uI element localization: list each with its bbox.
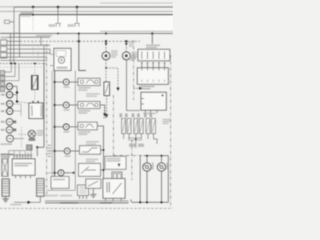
air temp sensor box [78,102,100,109]
check connector box [51,177,69,189]
node r2 [146,201,148,203]
relay bottom pins [145,110,157,113]
node J3 [76,6,79,9]
wire drop from J3 [76,7,78,23]
node on harness edge [78,32,80,34]
knock sensor S2 [157,156,165,203]
connector T2 [74,23,80,27]
dashed drop below resistor [106,96,108,114]
terminal mark t6 [13,129,16,132]
node J2 [57,6,60,9]
wire circle3 stub [13,104,21,116]
igniter top pins [14,156,31,158]
left connector block [0,71,4,92]
label under relay [143,113,156,114]
wire under check connector [47,189,75,191]
injector no2 [127,119,131,134]
enclosure border dash-dot [46,44,48,196]
heavy gray bus bar lower [45,202,129,204]
ignition coil A hatched [2,179,9,196]
label harness [21,12,34,14]
wire right of ISC [79,33,86,70]
connector circle 4 [7,108,13,114]
coil box narrow [2,159,8,177]
wire drop to header [151,32,153,34]
wire dashed faint second [0,66,44,68]
main harness box top edge [20,14,174,16]
node J1 [32,6,35,9]
wire circle1 to junction [13,86,17,101]
connector tick rows [142,62,165,65]
wire top feed light left [0,6,14,8]
wire second feed [0,10,173,12]
wire ladder L6 [0,56,47,58]
node on harness bottom [105,32,107,34]
label ISC [57,67,68,69]
sensor rail [144,155,169,157]
relay top pins [32,101,39,103]
harness box interior [20,15,173,32]
ECU bus wire main [54,71,56,177]
label text left margin [1,143,13,145]
node r3 [160,201,162,203]
dash-dot border upper right [133,40,135,100]
main harness box bottom edge [0,32,173,34]
arrow end of branch [116,88,119,92]
node bus b2 [14,63,16,65]
wire drop from J1 [32,7,34,15]
label near border [130,55,137,56]
dash-dot border far right [170,55,172,207]
label left of border [129,42,134,43]
wire ladder L1 [7,36,50,38]
label bottom left [11,204,22,206]
wire inner gray rail [100,30,173,32]
wire dashed rail [20,40,140,42]
wire code labels column [48,145,51,146]
ignition coil B hatched [37,179,44,197]
relay label box [105,156,126,169]
ECU bus companion wire [51,71,53,191]
wire ladder L7 [0,59,47,61]
connector T1 [55,23,61,27]
connector circle 5 [6,119,13,126]
igniter main box [103,179,125,199]
connector circle 2 [6,92,12,98]
wire sensor3 right [97,126,103,179]
ISC left stubs [50,54,54,65]
label above ladder [36,35,52,37]
label under wire [44,195,58,197]
heavy gray bus bar upper [45,200,129,202]
label valve text [86,159,98,161]
relay box left [29,103,43,119]
test point circle 1 [54,79,80,88]
node on dashed rail [78,40,80,42]
test point circle 4 [54,148,80,157]
wire to ground g3 [5,196,7,198]
vsv valve box [79,164,101,177]
wire dashed bus lower [0,63,46,65]
fuse block FB2 [0,46,6,51]
dashed link to resistor [105,68,107,82]
small pin box bottom center-right [78,185,89,196]
wire to ground g4 [92,188,94,194]
ground g3 [2,199,8,202]
injector no5 [146,119,150,134]
small switch box above grounds [86,179,101,188]
arrow mark [105,114,108,117]
igniter bottom pins [16,175,31,178]
label above header [146,45,160,46]
dashed link distributor branch [106,60,118,87]
wire circle7 right [14,138,25,140]
wire stubs to center bus [100,150,103,170]
wires above igniter pins [9,146,31,159]
wire vertical V2 [13,33,15,63]
bottom connector marks [129,144,136,147]
wire ladder L3 [7,44,50,46]
dashed drop right of circles [21,127,23,148]
injector pin label row [120,113,123,117]
connector circle 6 [6,127,13,134]
wire top feed B+ [14,6,173,8]
knock labels [152,163,154,170]
dashed wire to motor [19,133,29,135]
wire sensor2 to arrow [100,105,105,113]
wire ladder L4 [7,48,50,50]
rail end wire right [167,156,169,203]
ISC valve box [54,48,71,70]
arrow down g2 [103,113,106,116]
distributor circle D1 [102,40,118,60]
terminal mark t5 [13,121,16,124]
label right of motor [37,130,45,131]
fuse block FB1 [0,40,6,45]
test point circle 2 [54,102,80,111]
fuse block FB3 [0,53,6,58]
label T2 [68,24,75,27]
node c2 [16,100,18,102]
injector no4 [139,119,143,134]
wire left drop [139,156,141,203]
node r1 [139,201,141,203]
box inner edge detail [21,15,32,17]
bottom right rail [132,201,168,203]
wire OR stub [10,22,15,36]
ladder corner drops [41,37,50,63]
label T1 [49,24,56,27]
wire ladder L5 [7,52,50,54]
connector circle 7 [7,135,14,142]
wire from D2 down right rail [127,60,141,111]
left stubs into bus [47,151,55,173]
distributor circle D2 [122,40,138,60]
relay box right [141,92,166,110]
resistor inline [104,82,110,96]
pin number labels for connector circles [1,86,5,88]
wire verticals to dashed bus [11,64,19,81]
water temp sensor box [78,78,100,85]
wire vertical V4 [43,64,45,148]
wire circle4 stub [13,110,21,112]
connector circle 1 [6,83,12,89]
label mid text [86,141,99,143]
wire faint top right [100,2,173,4]
ground g4 [90,194,96,197]
main harness box left edge [19,15,21,34]
injector no3 [134,119,138,134]
cap box [112,172,122,180]
test point circle 5 [54,170,75,176]
injector bottom rail [128,138,142,140]
wire circle2 stub [13,94,17,96]
wires from block [5,72,19,81]
label right of injectors [163,119,171,120]
ISC inner port [56,51,66,57]
dashed arrow into relay [134,87,139,89]
wire drop from J2 [57,7,59,23]
wires into relay top [32,41,34,63]
label under ecu box [140,86,155,88]
throttle switch box [80,146,101,155]
label text under box1 [78,87,90,89]
connector header box [138,49,170,61]
igniter left box [12,159,35,176]
dash-dot border lower right [131,140,133,180]
knock sensor S1 [143,156,151,203]
label FB [1,37,7,39]
wire V4 terminal [36,146,38,148]
injector no1 [122,119,126,134]
ecu lower box [137,68,168,85]
ISC motor M [58,57,64,63]
ECU right rail wire [74,71,76,191]
injector bottom wires [124,134,154,139]
small dark box [27,145,32,150]
wire ladder L2 [7,40,20,42]
label box OR [5,20,10,23]
iac motor symbol [28,130,35,137]
wire from injector6 [154,139,158,144]
noise filter resistor [32,63,39,102]
test point circle 3 [54,124,80,133]
igniter box bottom pins [106,198,122,201]
connector circle 3 [7,101,13,107]
node bus b1 [10,63,12,65]
wire injector down [135,140,137,148]
wire vertical V3 [19,33,21,57]
wire drop left margin [13,7,15,22]
dashed wire to relay [19,102,30,103]
arrow bottom left [28,201,32,204]
wire vertical V1 [10,33,12,63]
node c1 [16,91,18,93]
oxygen sensor box [78,122,97,130]
injector no6 [152,119,156,134]
dash-dot border mid right [112,95,114,156]
wire bottom left with arrow [14,196,40,202]
page border dashed bottom [0,207,173,209]
